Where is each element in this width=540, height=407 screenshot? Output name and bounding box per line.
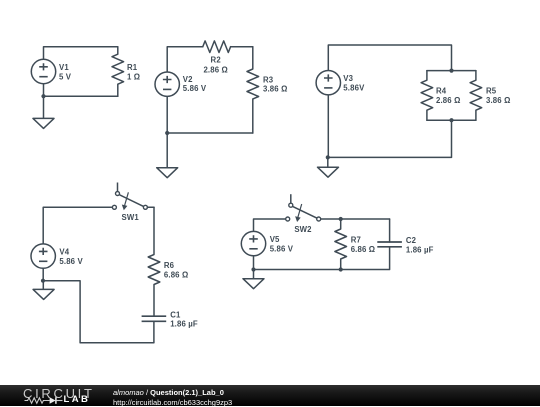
- svg-text:5.86 V: 5.86 V: [59, 257, 83, 266]
- voltage source V2: [155, 72, 179, 96]
- footer text: [113, 387, 232, 406]
- node: parallel top junction: [449, 69, 453, 73]
- node: V1 bottom junction: [41, 94, 45, 98]
- wire: C2 top stem: [389, 219, 391, 242]
- voltage source V3: [316, 71, 340, 95]
- CircuitLab logo: resistor squiggle + diode: [24, 396, 63, 405]
- CircuitLab logo: LAB: [64, 394, 91, 405]
- svg-text:V3: V3: [343, 74, 353, 83]
- svg-text:R4: R4: [436, 87, 447, 96]
- svg-text:3.86 Ω: 3.86 Ω: [486, 96, 511, 105]
- switch SW1: [117, 183, 119, 192]
- svg-text:V5: V5: [270, 235, 280, 244]
- node: V3 ground junction: [326, 155, 330, 159]
- voltage source V4: [31, 244, 55, 268]
- svg-text:5.86 V: 5.86 V: [270, 245, 294, 254]
- svg-text:SW2: SW2: [294, 225, 312, 234]
- wire: parallel bottom to V3 bottom: [328, 120, 452, 157]
- ground (circuit 3): [318, 167, 339, 177]
- switch SW2: [290, 194, 292, 203]
- wire: V2 bottom through junction to ground: [166, 96, 168, 167]
- ground (circuit 5): [243, 279, 264, 289]
- wire: V5 bottom stub: [253, 256, 255, 270]
- wire: ground stem (circuit 5): [253, 270, 255, 279]
- svg-text:R3: R3: [263, 75, 274, 84]
- node: V4 bottom junction: [41, 279, 45, 283]
- svg-text:1.86 µF: 1.86 µF: [170, 320, 198, 329]
- voltage source V1: [31, 59, 55, 83]
- wire: parallel bottom bar: [427, 119, 476, 121]
- svg-text:V4: V4: [59, 248, 69, 257]
- node: R7 top junction: [339, 217, 343, 221]
- wire: parallel top bar: [427, 70, 476, 72]
- svg-text:V2: V2: [183, 75, 193, 84]
- wire: R1 bottom to V1 bottom: [44, 95, 118, 97]
- svg-text:1 Ω: 1 Ω: [127, 73, 140, 82]
- svg-text:R5: R5: [486, 87, 497, 96]
- svg-text:R7: R7: [351, 236, 361, 245]
- svg-text:3.86 Ω: 3.86 Ω: [263, 85, 288, 94]
- wire: R2 right to R3 top: [231, 46, 253, 48]
- node: V2 bottom junction: [165, 131, 169, 135]
- resistor R7: [335, 219, 347, 270]
- capacitor C2: [377, 241, 402, 243]
- wire: V5 top to switch SW2: [254, 219, 286, 232]
- wire: V2 top to R2 left: [167, 47, 203, 72]
- node: R7 bottom junction: [339, 267, 343, 271]
- ground (circuit 1): [33, 118, 54, 128]
- svg-text:2.86 Ω: 2.86 Ω: [203, 66, 228, 75]
- svg-text:C2: C2: [406, 236, 417, 245]
- wire: ground stem (circuit 4): [42, 281, 44, 290]
- resistor R3: [247, 47, 259, 133]
- node: parallel bottom junction: [449, 118, 453, 122]
- wire: R3 bottom to V2 bottom: [167, 132, 253, 134]
- svg-text:2.86 Ω: 2.86 Ω: [436, 96, 461, 105]
- wire: V4 top to switch SW1: [43, 207, 112, 244]
- wire: V3 top to parallel junction: [328, 45, 451, 71]
- ground (circuit 4): [33, 289, 54, 299]
- wire: ground stem (circuit 3): [327, 157, 329, 167]
- svg-text:1.86 µF: 1.86 µF: [406, 245, 434, 254]
- ground (circuit 2): [157, 168, 178, 178]
- wire: C2 bottom to V5 bottom: [254, 247, 390, 270]
- wire: C1 bottom loop to V4 bottom: [43, 281, 154, 343]
- svg-text:SW1: SW1: [122, 213, 140, 222]
- wire: SW2 right to C2 branch: [321, 218, 390, 220]
- wire: SW1 right to R6 top: [147, 206, 154, 208]
- svg-text:5.86V: 5.86V: [343, 84, 365, 93]
- svg-text:6.86 Ω: 6.86 Ω: [351, 245, 376, 254]
- CircuitLab logo: CIRCUIT: [23, 385, 95, 400]
- svg-text:5.86 V: 5.86 V: [183, 84, 207, 93]
- svg-text:R2: R2: [211, 56, 222, 65]
- svg-text:R1: R1: [127, 63, 138, 72]
- wire: V3 bottom stub: [327, 95, 329, 157]
- wire: V4 bottom stub: [42, 268, 44, 281]
- resistor R4: [421, 71, 433, 121]
- svg-text:6.86 Ω: 6.86 Ω: [164, 270, 189, 279]
- wire: V1 bottom to ground stem: [43, 84, 45, 119]
- resistor R1: [112, 47, 124, 96]
- capacitor C1: [142, 315, 167, 317]
- svg-text:R6: R6: [164, 261, 175, 270]
- resistor R5: [470, 71, 482, 121]
- resistor R2: [203, 41, 231, 53]
- node: V5 bottom junction: [251, 267, 255, 271]
- svg-text:C1: C1: [170, 311, 181, 320]
- resistor R6: [148, 207, 160, 316]
- voltage source V5: [241, 231, 265, 255]
- svg-text:V1: V1: [59, 63, 69, 72]
- wire: V1 top to R1 top: [44, 47, 118, 60]
- svg-text:5 V: 5 V: [59, 73, 72, 82]
